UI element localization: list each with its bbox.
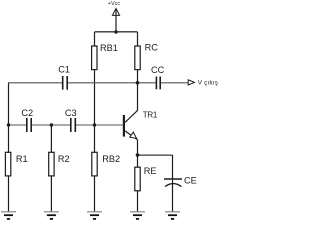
svg-text:RB1: RB1 bbox=[100, 43, 118, 53]
wire R2 rail bbox=[50, 125, 52, 212]
svg-text:C2: C2 bbox=[21, 108, 33, 118]
junction Vcc/bus bbox=[114, 30, 117, 33]
power symbol +Vcc arrow bbox=[112, 8, 119, 32]
svg-text:V çıkış: V çıkış bbox=[198, 80, 218, 87]
wire C1/CC output net bbox=[8, 82, 188, 84]
svg-text:RE: RE bbox=[144, 166, 157, 176]
svg-text:TR1: TR1 bbox=[143, 111, 158, 120]
wire emitter to CE bbox=[138, 154, 173, 156]
wire top bus bbox=[95, 31, 138, 33]
wire RE rail bbox=[137, 155, 139, 212]
capacitor C3 bbox=[71, 118, 76, 132]
transistor TR1 bbox=[123, 111, 138, 140]
resistor RE bbox=[135, 167, 140, 191]
capacitor C1 bbox=[63, 76, 67, 90]
ground R2 bbox=[44, 212, 59, 219]
junction C3/base/RB2 bbox=[93, 123, 96, 126]
junction collector/CC bbox=[136, 81, 140, 85]
output arrow V çıkış bbox=[188, 80, 194, 85]
svg-text:+Vcc: +Vcc bbox=[108, 1, 121, 7]
wire CE rail bbox=[172, 155, 174, 212]
resistor R1 bbox=[5, 152, 10, 176]
capacitor C2 bbox=[27, 118, 31, 132]
ground R1 bbox=[1, 212, 16, 219]
resistor RB1 bbox=[92, 46, 97, 70]
wire RC rail bbox=[137, 32, 139, 111]
resistor RB2 bbox=[92, 152, 97, 176]
svg-text:CC: CC bbox=[151, 65, 165, 75]
junction left rail / C2 bbox=[7, 123, 10, 126]
resistor R2 bbox=[49, 152, 54, 176]
wire emitter to RE bbox=[137, 140, 139, 155]
wire base net bbox=[9, 124, 123, 126]
svg-text:RC: RC bbox=[145, 43, 159, 53]
junction C2/C3/R2 bbox=[50, 123, 53, 126]
capacitor CE bbox=[164, 179, 182, 187]
ground CE bbox=[165, 212, 180, 219]
svg-text:R2: R2 bbox=[58, 154, 70, 164]
wire left rail bbox=[8, 83, 10, 212]
svg-text:C3: C3 bbox=[65, 108, 77, 118]
svg-text:RB2: RB2 bbox=[102, 154, 120, 164]
junction emitter/RE/CE bbox=[136, 153, 140, 157]
svg-text:R1: R1 bbox=[16, 154, 28, 164]
capacitor CC bbox=[156, 77, 160, 90]
svg-text:C1: C1 bbox=[58, 64, 70, 74]
ground RE bbox=[130, 212, 145, 219]
wire RB1 rail bbox=[94, 32, 96, 125]
wire RB2 rail bbox=[94, 125, 96, 212]
ground RB2 bbox=[87, 212, 102, 219]
svg-text:CE: CE bbox=[184, 176, 197, 186]
resistor RC bbox=[135, 46, 140, 70]
